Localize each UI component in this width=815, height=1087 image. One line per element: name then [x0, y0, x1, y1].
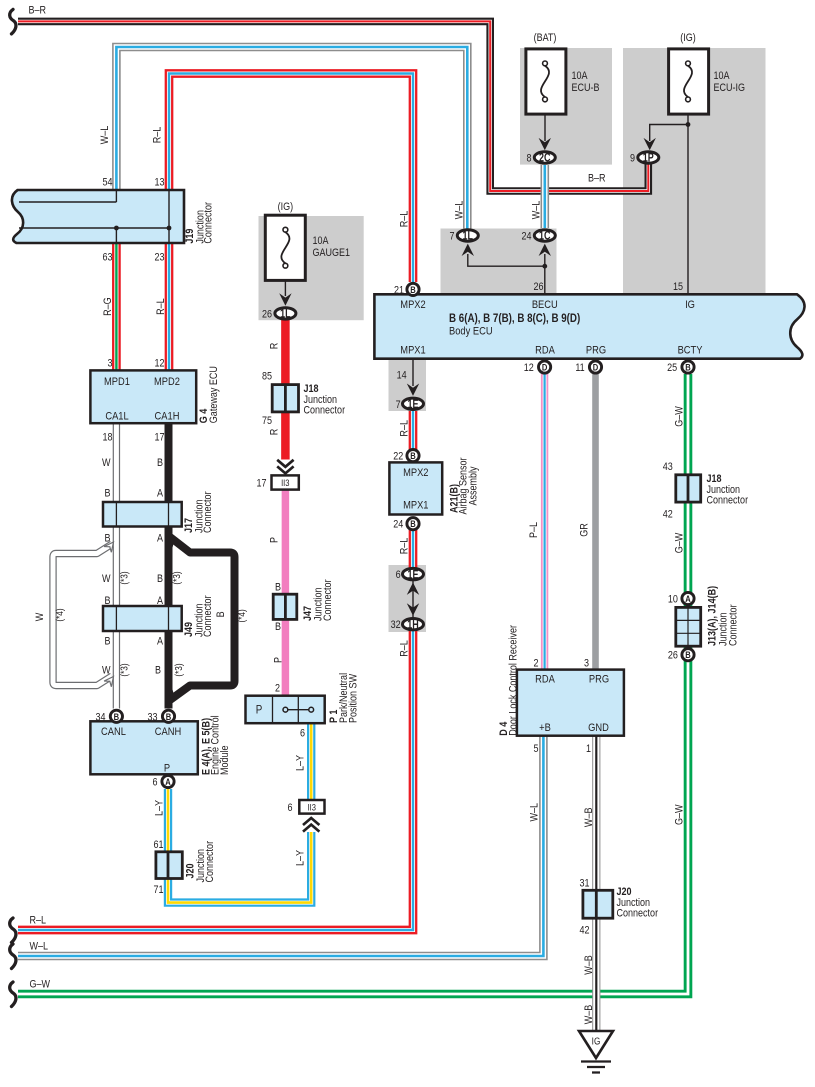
svg-text:Module: Module [219, 745, 231, 775]
svg-text:A: A [157, 533, 163, 545]
svg-text:W–B: W–B [583, 807, 595, 827]
svg-text:D: D [593, 362, 598, 373]
svg-text:A: A [157, 488, 163, 500]
svg-text:Connector: Connector [202, 491, 214, 533]
svg-text:(BAT): (BAT) [534, 32, 557, 44]
svg-text:CA1H: CA1H [155, 411, 180, 423]
svg-text:12: 12 [154, 358, 164, 370]
svg-text:Connector: Connector [728, 604, 740, 646]
svg-text:CANH: CANH [155, 726, 181, 738]
svg-text:IG: IG [592, 1036, 601, 1047]
svg-text:3: 3 [107, 358, 112, 370]
svg-text:1H: 1H [407, 618, 418, 632]
svg-text:MPD1: MPD1 [104, 376, 130, 388]
svg-text:25: 25 [667, 362, 677, 374]
svg-text:B: B [114, 711, 119, 722]
svg-text:14: 14 [397, 370, 407, 382]
svg-text:(*3): (*3) [119, 663, 130, 676]
svg-text:MPD2: MPD2 [154, 376, 180, 388]
svg-text:42: 42 [579, 925, 589, 937]
svg-text:7: 7 [396, 399, 401, 411]
svg-text:GAUGE1: GAUGE1 [313, 247, 351, 259]
svg-text:Body ECU: Body ECU [449, 326, 493, 338]
svg-text:26: 26 [533, 281, 543, 293]
svg-text:9: 9 [630, 153, 635, 165]
svg-text:P: P [273, 657, 285, 663]
svg-text:1L: 1L [280, 307, 291, 321]
svg-text:Gateway ECU: Gateway ECU [208, 366, 220, 423]
svg-text:W: W [102, 665, 111, 677]
svg-text:W–B: W–B [583, 955, 595, 975]
svg-text:R–L: R–L [155, 298, 167, 315]
svg-text:B 6(A), B 7(B), B 8(C), B 9(D): B 6(A), B 7(B), B 8(C), B 9(D) [449, 312, 581, 325]
svg-text:B: B [410, 518, 415, 529]
svg-text:43: 43 [663, 461, 673, 473]
svg-text:Connector: Connector [203, 201, 215, 243]
svg-text:R: R [269, 343, 281, 350]
svg-text:Connector: Connector [617, 908, 659, 920]
svg-text:G–W: G–W [674, 406, 686, 427]
svg-text:61: 61 [153, 839, 163, 851]
svg-text:L–Y: L–Y [295, 755, 307, 771]
svg-text:1L: 1L [463, 230, 474, 244]
svg-text:R–L: R–L [152, 126, 164, 143]
svg-text:R–L: R–L [399, 420, 411, 437]
svg-text:(*4): (*4) [236, 609, 247, 622]
svg-text:21: 21 [394, 285, 404, 297]
svg-text:MPX2: MPX2 [400, 299, 426, 311]
svg-text:8: 8 [526, 153, 531, 165]
svg-text:63: 63 [102, 252, 112, 264]
svg-text:G–W: G–W [674, 532, 686, 553]
svg-text:+B: +B [539, 722, 551, 734]
svg-text:B: B [104, 488, 110, 500]
svg-text:MPX1: MPX1 [403, 500, 429, 512]
svg-text:2C: 2C [539, 152, 551, 166]
svg-text:GR: GR [579, 523, 591, 537]
svg-text:W: W [102, 573, 111, 585]
svg-text:15: 15 [673, 281, 683, 293]
svg-text:W: W [34, 612, 46, 621]
svg-text:12: 12 [524, 362, 534, 374]
svg-text:32: 32 [391, 619, 401, 631]
svg-text:42: 42 [663, 509, 673, 521]
svg-text:85: 85 [262, 371, 272, 383]
svg-text:71: 71 [153, 884, 163, 896]
svg-text:IG: IG [685, 299, 695, 311]
svg-text:(IG): (IG) [278, 201, 294, 213]
svg-text:6: 6 [287, 802, 292, 814]
svg-text:1E: 1E [407, 568, 418, 582]
svg-text:6: 6 [152, 777, 157, 789]
svg-text:B: B [685, 649, 690, 660]
svg-text:A: A [165, 776, 170, 787]
svg-text:GND: GND [588, 722, 609, 734]
svg-text:54: 54 [102, 177, 112, 189]
svg-text:ECU-IG: ECU-IG [714, 82, 746, 94]
svg-text:B: B [157, 573, 163, 585]
svg-text:B: B [275, 621, 281, 633]
svg-text:G–W: G–W [30, 979, 51, 991]
svg-text:L–Y: L–Y [295, 850, 307, 866]
svg-text:R–L: R–L [399, 537, 411, 554]
svg-text:MPX1: MPX1 [400, 345, 426, 357]
svg-text:R–L: R–L [399, 640, 411, 657]
svg-text:RDA: RDA [535, 674, 555, 686]
svg-text:P: P [256, 704, 263, 717]
svg-text:10A: 10A [572, 70, 588, 82]
svg-text:B: B [685, 362, 690, 373]
svg-text:B: B [157, 457, 163, 469]
svg-text:1P: 1P [643, 152, 654, 166]
svg-text:2: 2 [275, 683, 280, 695]
svg-text:II3: II3 [308, 802, 317, 813]
svg-text:W–L: W–L [529, 803, 541, 822]
svg-text:1: 1 [586, 743, 591, 755]
svg-text:ECU-B: ECU-B [572, 82, 600, 94]
svg-text:B: B [104, 595, 110, 607]
svg-text:W–L: W–L [30, 941, 49, 953]
svg-text:Connector: Connector [304, 405, 346, 417]
svg-text:CANL: CANL [101, 726, 126, 738]
svg-text:(*4): (*4) [54, 608, 65, 621]
svg-text:75: 75 [262, 415, 272, 427]
svg-text:G–W: G–W [674, 804, 686, 825]
svg-text:B: B [104, 636, 110, 648]
svg-text:P: P [164, 763, 170, 775]
svg-text:B: B [215, 611, 227, 617]
svg-text:Connector: Connector [202, 595, 214, 637]
svg-text:PRG: PRG [586, 345, 606, 357]
svg-text:Door Lock Control Receiver: Door Lock Control Receiver [508, 624, 520, 735]
svg-text:34: 34 [95, 712, 105, 724]
svg-text:B–R: B–R [29, 5, 47, 17]
svg-text:5: 5 [533, 743, 538, 755]
svg-text:MPX2: MPX2 [403, 467, 429, 479]
svg-text:R: R [269, 429, 281, 436]
svg-text:BECU: BECU [532, 299, 558, 311]
svg-text:W–L: W–L [531, 200, 543, 219]
svg-text:R–G: R–G [102, 297, 114, 316]
svg-text:B: B [104, 533, 110, 545]
svg-text:R–L: R–L [30, 915, 47, 927]
svg-text:P: P [269, 537, 281, 543]
svg-text:10: 10 [668, 594, 678, 606]
svg-text:17: 17 [256, 478, 266, 490]
svg-text:Connector: Connector [707, 495, 749, 507]
svg-text:B–R: B–R [588, 173, 606, 185]
svg-text:RDA: RDA [535, 345, 555, 357]
svg-text:23: 23 [154, 252, 164, 264]
svg-text:1E: 1E [407, 398, 418, 412]
svg-text:W–B: W–B [583, 1004, 595, 1024]
svg-text:26: 26 [262, 309, 272, 321]
svg-text:B: B [410, 284, 415, 295]
svg-text:(*3): (*3) [173, 663, 184, 676]
svg-text:18: 18 [102, 432, 112, 444]
svg-text:II3: II3 [281, 477, 290, 488]
svg-text:P–L: P–L [528, 522, 540, 538]
svg-text:Connector: Connector [322, 579, 334, 621]
svg-text:1C: 1C [539, 230, 551, 244]
svg-text:BCTY: BCTY [678, 345, 703, 357]
svg-text:31: 31 [579, 878, 589, 890]
svg-text:24: 24 [393, 519, 403, 531]
svg-text:A: A [157, 636, 163, 648]
svg-text:33: 33 [147, 712, 157, 724]
svg-text:22: 22 [393, 451, 403, 463]
svg-text:W–L: W–L [454, 200, 466, 219]
svg-text:Connector: Connector [204, 840, 216, 882]
svg-text:24: 24 [521, 231, 531, 243]
svg-text:R–L: R–L [399, 210, 411, 227]
svg-text:Position SW: Position SW [348, 673, 360, 723]
svg-text:2: 2 [533, 658, 538, 670]
svg-text:7: 7 [449, 231, 454, 243]
svg-text:PRG: PRG [589, 674, 609, 686]
svg-text:3: 3 [584, 658, 589, 670]
svg-text:A: A [685, 593, 690, 604]
svg-text:L–Y: L–Y [154, 800, 166, 816]
svg-text:B: B [155, 665, 161, 677]
svg-text:17: 17 [154, 432, 164, 444]
svg-text:6: 6 [396, 569, 401, 581]
svg-text:B: B [275, 582, 281, 594]
svg-text:A: A [157, 595, 163, 607]
svg-text:W–L: W–L [99, 125, 111, 144]
svg-text:10A: 10A [714, 70, 730, 82]
svg-text:(*3): (*3) [171, 571, 182, 584]
svg-text:26: 26 [668, 650, 678, 662]
svg-text:(*3): (*3) [119, 571, 130, 584]
svg-text:D: D [542, 362, 547, 373]
svg-text:10A: 10A [313, 235, 329, 247]
svg-text:11: 11 [575, 362, 585, 374]
svg-text:(IG): (IG) [680, 32, 696, 44]
svg-text:6: 6 [300, 728, 305, 740]
svg-text:W: W [102, 457, 111, 469]
svg-text:B: B [166, 711, 171, 722]
svg-text:CA1L: CA1L [105, 411, 129, 423]
svg-text:13: 13 [154, 177, 164, 189]
svg-text:Assembly: Assembly [468, 466, 480, 505]
svg-text:B: B [410, 450, 415, 461]
